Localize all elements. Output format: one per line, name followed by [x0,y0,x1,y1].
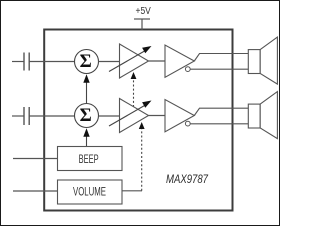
summer S2 [75,104,99,128]
svg-text:Σ: Σ [80,52,92,72]
beep riser wire circle2 to circle1 with arrow [83,74,89,103]
wire input IN1 [12,61,24,63]
wire C1 to summer [29,61,74,63]
wire BEEP input [13,158,58,160]
power amplifier A3 [165,45,194,77]
speaker SPK1 [248,37,277,84]
supply terminal bar [134,18,150,20]
speaker SPK2 [248,92,277,139]
wire VOLUME output to riser [122,190,142,192]
wire C2 to summer [29,115,74,117]
VOLUME box [58,180,123,204]
wire OUT1- to speaker [190,68,248,70]
summer S1 [75,50,99,74]
wire OUT1+ to speaker [194,54,248,62]
power amplifier A4 [165,100,194,132]
wire OUT2- to speaker [190,123,248,125]
beep riser wire BEEP box to circle2 with arrow [83,128,89,146]
svg-text:+5V: +5V [136,6,152,17]
IC box MAX9787 outline [44,30,232,211]
volume control arrow into A2 [139,122,145,191]
BEEP box [58,147,123,171]
wire A1 to power amp [149,60,166,62]
VGA amplifier A2 [109,99,152,133]
svg-text:BEEP: BEEP [79,152,99,166]
svg-text:Σ: Σ [80,106,92,126]
wire summer S2 to amp [99,115,120,117]
capacitor C1 [24,53,29,71]
svg-text:VOLUME: VOLUME [73,187,106,199]
svg-text:MAX9787: MAX9787 [166,172,209,186]
capacitor C2 [24,107,29,125]
wire A2 to power amp [149,115,166,117]
VGA amplifier A1 [109,44,152,78]
wire VOLUME input [13,190,58,192]
volume control arrow into A1 [131,72,137,107]
wire OUT2+ to speaker [194,108,248,115]
wire supply to box [141,19,143,30]
wire summer S1 to amp [99,61,120,63]
wire input IN2 [12,115,24,117]
